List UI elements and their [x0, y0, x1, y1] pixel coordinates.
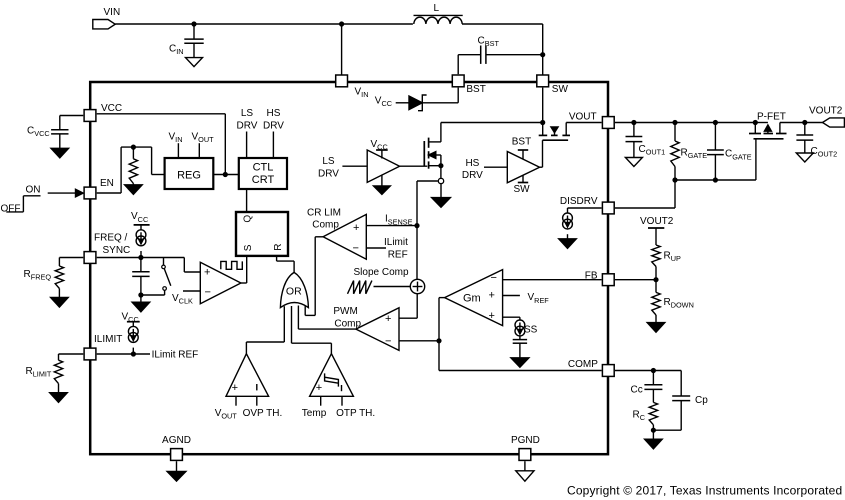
svg-text:DRV: DRV [263, 121, 284, 132]
pin SW [537, 75, 569, 95]
ground CVCC [51, 148, 69, 158]
arrow ON/OFF to EN [48, 189, 83, 197]
svg-text:VOUT: VOUT [192, 131, 215, 144]
node COUT2 tap [803, 121, 807, 125]
node RGATE tap [673, 121, 677, 125]
svg-text:FREQ /: FREQ / [94, 232, 128, 243]
wire FREQ/SYNC net [97, 257, 185, 259]
OTP TH input stub [336, 396, 375, 419]
node RGATE bottom [673, 178, 677, 182]
node FB divider junction [654, 278, 658, 282]
transistor Q1 (LS FET) [424, 123, 441, 178]
wire SW pin to junction [542, 88, 544, 123]
svg-text:VIN: VIN [355, 87, 369, 100]
transistor P-FET (output disconnect) [749, 112, 787, 139]
node comp gnd junction [652, 428, 656, 432]
svg-text:−: − [353, 243, 359, 255]
svg-text:CRT: CRT [252, 174, 275, 186]
label ILimit REF [152, 350, 199, 361]
svg-text:BST: BST [466, 84, 485, 95]
svg-text:Q: Q [242, 215, 253, 223]
wire Gm SS input [503, 317, 520, 320]
clock waveform glyph [221, 261, 243, 269]
comparator CR LIM [307, 207, 366, 259]
wire ISENSE [417, 181, 438, 226]
wire Gm output to COMP [439, 298, 602, 371]
svg-text:ILimit: ILimit [384, 237, 408, 248]
gate OR [280, 272, 308, 307]
svg-text:Comp: Comp [334, 319, 361, 330]
op-amp Gm (error amplifier) [445, 270, 503, 326]
capacitor Cp [653, 371, 708, 431]
buffer HS DRV [462, 152, 540, 183]
wire VCLK input [172, 291, 200, 306]
node FREQ net [139, 256, 143, 260]
node VIN-CIN junction [192, 22, 196, 26]
svg-text:VIN: VIN [169, 131, 183, 144]
ground SS [511, 358, 529, 367]
svg-text:Gm: Gm [463, 293, 481, 305]
ground osc cap [132, 295, 150, 312]
svg-text:+: + [489, 310, 495, 322]
supply VCC (osc current source) [131, 211, 150, 230]
wire CBST to BST pin [457, 55, 459, 74]
buffer LS DRV [318, 150, 400, 182]
svg-text:ON: ON [26, 184, 41, 195]
wire ISENSE to summer [416, 226, 418, 280]
pin PGND [511, 435, 540, 461]
svg-text:SYNC: SYNC [103, 245, 131, 256]
wire ILIMIT net [97, 353, 150, 355]
resistor RLIMIT [26, 354, 84, 393]
wire PWM output to OR [298, 306, 356, 330]
svg-text:+: + [316, 382, 322, 394]
wire CR LIM output to OR [305, 237, 323, 316]
svg-text:EN: EN [100, 178, 114, 189]
svg-text:VOUT: VOUT [569, 111, 597, 122]
transistor Q2 (HS FET) [539, 123, 570, 141]
OVP VOUT input stub [215, 396, 238, 420]
OTP Temp input stub [302, 396, 327, 419]
wire VOUT rail [615, 122, 755, 124]
svg-text:P-FET: P-FET [757, 112, 786, 123]
svg-text:+: + [353, 222, 359, 234]
wire L to SW [462, 24, 543, 55]
REG VIN stub [169, 131, 183, 158]
svg-text:DRV: DRV [237, 121, 258, 132]
wire VCC to REG-CTL [97, 114, 226, 175]
sawtooth waveform glyph [348, 281, 372, 294]
ground PGND (power gnd) [516, 461, 534, 481]
svg-text:RUP: RUP [664, 250, 682, 263]
diode D1 (bootstrap zener) [409, 95, 427, 111]
svg-text:S: S [243, 244, 254, 251]
svg-text:SS: SS [524, 324, 538, 335]
svg-text:DRV: DRV [462, 170, 483, 181]
svg-text:DISDRV: DISDRV [560, 196, 598, 207]
wire summer to PWM plus [399, 294, 417, 319]
svg-text:VOUT2: VOUT2 [809, 105, 843, 116]
node LS FET source-body [439, 164, 443, 168]
ON/OFF step input [1, 184, 41, 214]
node SW internal junction [541, 121, 545, 125]
svg-text:VOUT2: VOUT2 [640, 216, 674, 227]
resistor RC [633, 389, 658, 430]
svg-text:SW: SW [513, 184, 530, 195]
ground COUT1 (power gnd) [625, 158, 642, 167]
supply VCC (LS DRV) [371, 139, 388, 159]
svg-text:RDOWN: RDOWN [664, 297, 694, 310]
wire P-FET to VOUT2 [780, 122, 823, 124]
ground compensation [645, 430, 663, 449]
capacitor COUT1 [626, 123, 666, 158]
pin FB [585, 270, 614, 285]
svg-text:VCC: VCC [375, 96, 392, 109]
svg-text:Slope Comp: Slope Comp [354, 267, 409, 278]
wire LS DRV to gate [400, 165, 428, 167]
svg-text:+: + [385, 313, 391, 325]
svg-text:+: + [204, 267, 210, 279]
wire HS FET to VOUT pin [566, 122, 601, 124]
ground COUT2 (power gnd) [796, 153, 813, 162]
svg-text:COMP: COMP [568, 359, 598, 370]
wire HS FET gate [540, 140, 543, 167]
svg-text:Comp: Comp [312, 220, 339, 231]
wire VCC to diode [396, 102, 409, 104]
svg-text:PGND: PGND [511, 435, 540, 446]
current source SS (soft start) [515, 320, 538, 336]
capacitor CGATE [707, 123, 752, 181]
svg-text:DRV: DRV [318, 168, 339, 179]
svg-text:OFF: OFF [1, 203, 21, 214]
comparator PWM [333, 306, 399, 350]
summing node (slope comp adder) [410, 279, 424, 293]
node ISENSE junction [415, 224, 419, 228]
svg-text:Cp: Cp [695, 395, 708, 406]
svg-text:AGND: AGND [162, 435, 191, 446]
capacitor osc timing [132, 258, 149, 296]
wire diode to BST pin [422, 88, 458, 103]
svg-text:Cc: Cc [631, 384, 643, 395]
wire osc comp plus input [184, 258, 200, 273]
CTL LS DRV stub [237, 108, 258, 158]
svg-text:Copyright © 2017, Texas Instru: Copyright © 2017, Texas Instruments Inco… [567, 484, 842, 498]
pin FREQ/SYNC [84, 232, 130, 263]
wire CR LIM minus (ILimit REF) [366, 237, 408, 260]
node SW-CBST junction [541, 53, 545, 57]
label ISENSE [385, 214, 413, 227]
svg-text:RLIMIT: RLIMIT [26, 366, 52, 379]
svg-text:BST: BST [512, 137, 531, 148]
node ISENSE tap (current sense) [438, 178, 443, 183]
ground RDOWN [647, 323, 665, 333]
block REG (regulator) [165, 158, 214, 189]
node Cc top [652, 369, 656, 373]
current source I3 (disdrv) [563, 213, 573, 239]
ground DISDRV source [559, 239, 577, 249]
label VCC (bootstrap) [375, 96, 392, 109]
svg-text:−: − [491, 272, 497, 284]
node COUT1 tap [632, 121, 636, 125]
REG VOUT stub [192, 131, 215, 158]
node osc cap bottom [139, 293, 143, 297]
CTL HS DRV stub [263, 108, 284, 158]
switch sync select [141, 258, 171, 296]
pin VCC [84, 103, 122, 122]
capacitor COUT2 [796, 123, 837, 159]
svg-text:+: + [489, 290, 495, 302]
ground RLIMIT [50, 393, 68, 403]
capacitor CBST [458, 36, 543, 64]
supply VCC (ilimit source) [122, 311, 140, 326]
node Gm out - PWM minus [437, 339, 441, 343]
svg-text:VCC: VCC [131, 211, 148, 224]
svg-text:RC: RC [633, 410, 646, 423]
resistor RFREQ [24, 258, 84, 298]
svg-text:VOUT: VOUT [215, 408, 238, 421]
svg-text:REF: REF [388, 250, 408, 261]
OVP TH input stub [243, 396, 283, 419]
svg-text:OR: OR [286, 286, 302, 298]
svg-text:ILIMIT: ILIMIT [94, 334, 122, 345]
svg-text:ILimit REF: ILimit REF [152, 350, 199, 361]
svg-text:CGATE: CGATE [725, 149, 752, 162]
svg-text:CR LIM: CR LIM [307, 207, 341, 218]
VIN input connector [93, 7, 120, 29]
IC boundary box [90, 82, 608, 454]
ground LS FET source [432, 184, 451, 207]
svg-text:RGATE: RGATE [681, 147, 708, 160]
pin BST [452, 75, 486, 95]
pin AGND [162, 435, 191, 461]
resistor RGATE [671, 123, 707, 181]
ground CIN (power gnd) [186, 58, 203, 67]
capacitor CIN [169, 24, 204, 58]
wire DISDRV to gate rail [615, 180, 675, 208]
node P-FET drain tap [753, 121, 757, 125]
label Slope Comp [354, 267, 409, 278]
pin VIN [336, 75, 369, 99]
pin COMP [568, 359, 614, 376]
capacitor CVCC [27, 116, 83, 149]
node ILimit REF [132, 352, 136, 356]
svg-text:CVCC: CVCC [27, 126, 50, 139]
wire CTL to latch Q [246, 189, 248, 212]
svg-text:VCC: VCC [101, 103, 122, 114]
latch U1 (SR latch) [236, 212, 288, 256]
svg-text:REG: REG [177, 169, 201, 181]
comparator OVP [226, 354, 269, 397]
wire VIN pin drop [341, 24, 343, 81]
wire FB to divider [615, 279, 656, 281]
wire P-FET gate drop [755, 139, 757, 180]
ground LS DRV [374, 175, 391, 195]
svg-text:R: R [273, 244, 284, 251]
svg-text:L: L [434, 3, 440, 14]
capacitor SS [513, 335, 527, 357]
wire Gm minus to FB [503, 279, 602, 281]
supply SW (HS DRV) [513, 175, 530, 195]
wire OR input OTP [292, 306, 332, 354]
wire VIN rail [115, 23, 413, 25]
node EN pulldown tap [132, 145, 136, 149]
svg-text:ISENSE: ISENSE [385, 214, 413, 227]
svg-text:COUT1: COUT1 [639, 144, 666, 157]
pin DISDRV [560, 196, 614, 214]
wire latch S input [246, 256, 248, 283]
resistor RUP [652, 245, 681, 280]
pin EN [84, 178, 114, 199]
capacitor Cc [631, 371, 663, 396]
wire OR input OVP [246, 306, 284, 354]
wire SW drop to pin [542, 55, 544, 81]
node CGATE bottom [714, 178, 718, 182]
wire DISDRV internal [568, 208, 602, 213]
node CGATE tap [714, 121, 718, 125]
current source I2 (ilimit) [128, 326, 138, 354]
node VCC-REG-CTL junction [223, 173, 227, 177]
svg-text:RFREQ: RFREQ [24, 269, 52, 282]
svg-text:−: − [205, 286, 211, 298]
comparator osc [200, 262, 241, 303]
resistor RDOWN [652, 280, 694, 323]
comparator OTP [310, 354, 354, 397]
wire gate rail [675, 179, 756, 181]
wire REG to CTL CRT [213, 174, 239, 176]
node VIN-pin junction [340, 22, 344, 26]
ground EN pulldown [125, 185, 143, 195]
wire osc comp to S [241, 282, 247, 284]
wire LS drain to SW node [441, 122, 543, 124]
inductor L [414, 3, 463, 24]
svg-text:HS: HS [465, 158, 479, 169]
wire EN to REG [97, 147, 165, 193]
svg-text:OVP TH.: OVP TH. [243, 408, 283, 419]
svg-text:PWM: PWM [333, 306, 357, 317]
svg-text:−: − [385, 336, 391, 348]
wire CR LIM plus (ISENSE) [366, 225, 417, 227]
pin VOUT [569, 111, 614, 128]
resistor EN pulldown [129, 147, 137, 185]
ground AGND [167, 461, 186, 481]
svg-text:LS: LS [241, 108, 254, 119]
ground RFREQ [51, 298, 69, 308]
svg-text:CTL: CTL [253, 162, 274, 174]
copyright text [567, 484, 842, 498]
current source I1 (osc) [136, 230, 146, 258]
svg-text:HS: HS [267, 108, 281, 119]
svg-text:SW: SW [552, 84, 569, 95]
supply VOUT2 (divider top) [640, 216, 674, 245]
svg-text:CIN: CIN [169, 43, 184, 56]
VOUT2 output connector [809, 105, 844, 127]
svg-text:COUT2: COUT2 [811, 146, 838, 159]
svg-text:OTP TH.: OTP TH. [336, 408, 375, 419]
wire sawtooth to summer [374, 286, 411, 288]
svg-text:Temp: Temp [302, 408, 327, 419]
svg-text:CBST: CBST [478, 36, 500, 49]
wire PWM minus (COMP net) [399, 340, 439, 342]
wire COMP to network [615, 370, 681, 372]
svg-text:VIN: VIN [104, 7, 121, 18]
wire latch R input [277, 256, 295, 273]
svg-text:LS: LS [322, 156, 335, 167]
svg-text:VCLK: VCLK [172, 293, 193, 306]
svg-text:+: + [232, 382, 238, 394]
pin ILIMIT [84, 334, 122, 360]
svg-text:VREF: VREF [528, 292, 550, 305]
supply BST (HS DRV) [512, 137, 531, 160]
block CTL CRT (control circuit) [239, 158, 287, 189]
wire Gm VREF input [503, 292, 550, 305]
